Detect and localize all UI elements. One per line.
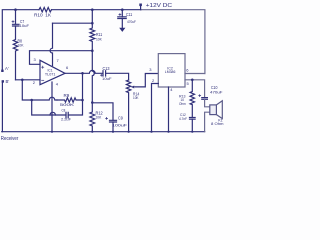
resistor R10	[39, 7, 52, 11]
op-amp U1 TL071	[40, 60, 65, 84]
wire speaker return to ground	[205, 112, 210, 132]
svg-text:10K: 10K	[96, 114, 102, 119]
hop C8 row over pin4 column	[50, 112, 55, 115]
svg-text:C13: C13	[103, 66, 111, 71]
junction dots on bus	[51, 131, 53, 133]
svg-text:6: 6	[186, 67, 189, 72]
svg-text:A′: A′	[5, 66, 9, 71]
svg-text:B′: B′	[6, 79, 10, 84]
svg-text:500K: 500K	[60, 102, 75, 107]
svg-text:+12V DC: +12V DC	[146, 3, 173, 9]
svg-text:2: 2	[33, 80, 36, 85]
wire C8 left column	[32, 100, 66, 115]
wire pin6 LM386	[185, 73, 205, 75]
wire bias to C9	[92, 103, 113, 120]
speaker K1	[210, 105, 217, 115]
wire pin7 column with hop	[50, 23, 52, 65]
wire B to ground	[1, 83, 3, 132]
node B terminal	[2, 80, 4, 82]
svg-text:6: 6	[66, 65, 69, 70]
capacitor C8	[66, 112, 68, 118]
resistor R12	[90, 103, 95, 132]
ground bus	[2, 131, 205, 133]
potentiometer R14	[126, 80, 130, 132]
svg-text:Ohm: Ohm	[179, 101, 186, 106]
wire rail middle	[52, 9, 142, 11]
svg-text:100uF: 100uF	[112, 123, 128, 128]
junction C8 branch	[30, 99, 33, 102]
svg-text:3: 3	[34, 57, 37, 62]
junction bias node	[91, 49, 94, 52]
svg-text:10uF: 10uF	[20, 23, 30, 28]
capacitor C10	[202, 98, 208, 100]
svg-text:10K: 10K	[96, 36, 102, 41]
capacitor C12	[190, 118, 196, 120]
svg-text:TL071: TL071	[45, 72, 56, 76]
svg-text:5: 5	[187, 81, 190, 86]
wire R9 row with hop	[32, 97, 57, 100]
junction pin5/R13	[191, 79, 194, 82]
resistor R13	[190, 80, 194, 117]
wire bias column with hop over output	[92, 51, 94, 103]
svg-text:470uF: 470uF	[210, 89, 223, 94]
IC2 LM386 box	[158, 54, 185, 87]
svg-text:LM386: LM386	[165, 70, 176, 74]
junction rail C7	[14, 8, 17, 11]
junction bias bottom	[91, 101, 94, 104]
svg-text:4: 4	[56, 82, 59, 87]
svg-text:R10 1K: R10 1K	[34, 12, 51, 17]
junction R11 top	[91, 22, 94, 25]
wire pin4 LM386	[168, 87, 170, 132]
svg-text:4.7nF: 4.7nF	[179, 116, 187, 121]
wire output column to feedback	[68, 73, 82, 115]
svg-text:C9: C9	[118, 115, 123, 120]
svg-text:C8: C8	[62, 108, 66, 113]
svg-text:10K: 10K	[133, 95, 139, 100]
wire rail right	[141, 10, 205, 74]
svg-text:7: 7	[57, 58, 60, 63]
wire TL071 output	[65, 70, 102, 73]
svg-text:4: 4	[170, 87, 173, 92]
node bias row to pin3	[30, 51, 93, 65]
junction output node	[81, 72, 84, 75]
node A terminal	[1, 70, 3, 72]
svg-text:10uF: 10uF	[102, 76, 112, 81]
svg-text:470uF: 470uF	[127, 19, 136, 24]
svg-text:2: 2	[152, 78, 155, 83]
wire pin7 top line	[53, 22, 93, 24]
resistor R8	[13, 26, 17, 80]
svg-text:3: 3	[149, 67, 152, 72]
wire feedback left column	[22, 80, 31, 100]
svg-text:Receiver: Receiver	[1, 136, 19, 142]
junction pin2/feedback	[21, 79, 24, 82]
svg-text:R9: R9	[64, 93, 70, 98]
wire pin2 TL071	[16, 79, 41, 81]
+12V DC terminal	[140, 6, 142, 10]
wire +12V rail left segment	[2, 10, 39, 70]
ground arrow C11	[119, 28, 125, 32]
capacitor C9	[110, 120, 117, 122]
wire pin2 LM386	[152, 84, 159, 132]
wire pin4 TL071 to ground	[51, 82, 53, 132]
resistor R11	[90, 10, 95, 51]
capacitor C13	[103, 71, 106, 76]
junction output/R9	[81, 99, 84, 102]
svg-text:8 Ohm: 8 Ohm	[211, 121, 224, 126]
wire output to pot	[106, 73, 129, 80]
wire C10 to speaker	[205, 99, 210, 107]
wire pin5 LM386	[185, 80, 205, 98]
capacitor C11	[121, 10, 123, 17]
svg-text:C11: C11	[126, 12, 133, 17]
capacitor C7	[15, 10, 17, 24]
resistor R9	[57, 98, 83, 102]
svg-text:2.2uF: 2.2uF	[61, 117, 72, 122]
pot wiper arrow	[133, 74, 158, 87]
svg-text:10K: 10K	[18, 43, 24, 48]
junction rail R11	[91, 8, 94, 11]
